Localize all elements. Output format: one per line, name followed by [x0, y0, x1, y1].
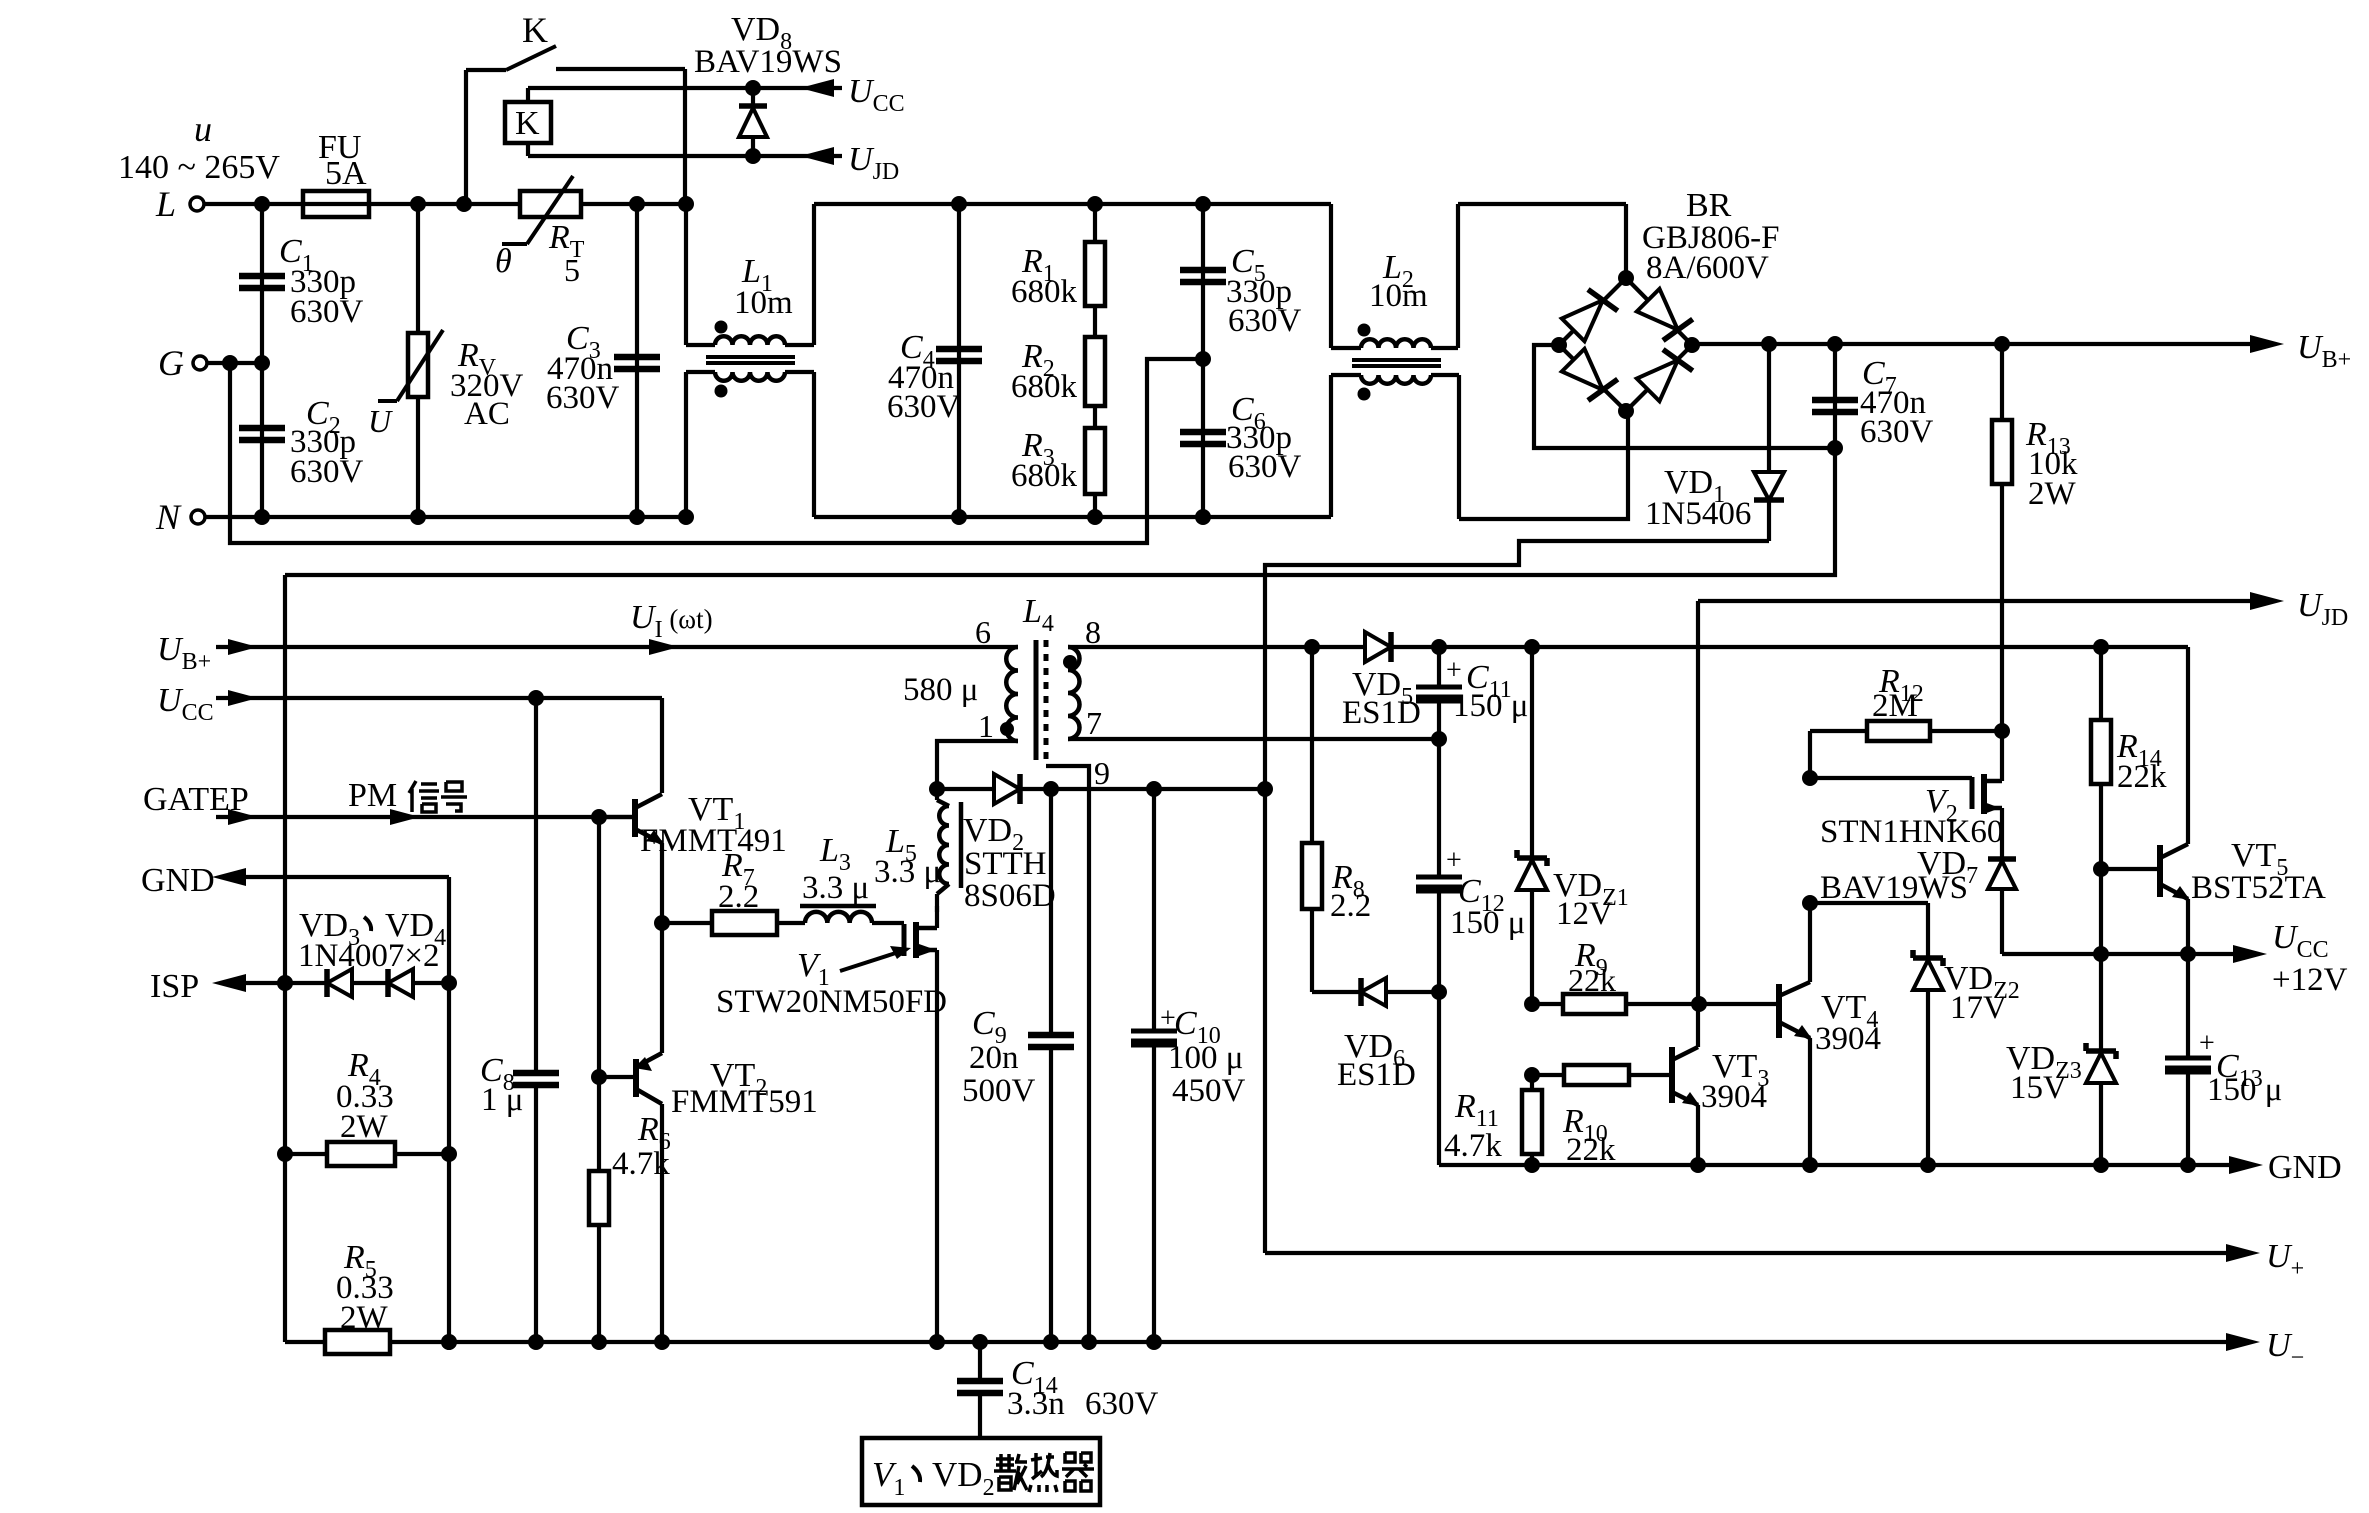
zener VDZ2 17V	[1810, 901, 1928, 905]
wire ISP line	[244, 981, 327, 985]
VT1 collector	[635, 794, 662, 808]
transistor VT1 FMMT491 base bar	[632, 799, 638, 837]
svg-text:630V: 630V	[1860, 414, 1934, 450]
switch K bypass relay contact	[464, 70, 468, 204]
svg-text:STW20NM50FD: STW20NM50FD	[716, 984, 947, 1020]
resistor R5 0.33 2W in U- rail	[285, 1340, 325, 1344]
svg-text:FMMT491: FMMT491	[640, 823, 787, 859]
transistor VT2 FMMT591 base bar	[633, 1059, 639, 1097]
diode VD5 ES1D	[1365, 632, 1391, 662]
svg-text:630V: 630V	[1228, 303, 1302, 339]
svg-text:+12V: +12V	[2272, 962, 2348, 998]
wire PM signal line to VT1 base	[256, 815, 635, 819]
svg-text:ES1D: ES1D	[1342, 695, 1421, 731]
svg-text:L: L	[155, 184, 176, 224]
wire L to fuse	[204, 202, 303, 206]
svg-text:1 μ: 1 μ	[481, 1082, 523, 1118]
VT1 emitter with arrow	[635, 829, 662, 843]
svg-text:12V: 12V	[1556, 896, 1613, 932]
svg-text:2W: 2W	[340, 1300, 389, 1336]
heat sink box V1 VD2	[862, 1438, 1100, 1505]
svg-text:3904: 3904	[1815, 1021, 1881, 1057]
svg-text:AC: AC	[464, 396, 510, 432]
wire coil to UCC arrow	[528, 86, 842, 90]
capacitor C5 330p 630V	[1201, 204, 1205, 359]
common-mode choke L1 10m	[684, 204, 688, 345]
bridge diode top-right	[1637, 289, 1678, 330]
VT5 emitter	[2160, 884, 2188, 899]
wire GND rail lower	[1439, 1163, 2241, 1167]
inductor L5 3.3u	[935, 789, 939, 800]
svg-text:6: 6	[975, 614, 991, 650]
resistor R1 680k	[1093, 204, 1097, 242]
svg-text:FMMT591: FMMT591	[671, 1084, 818, 1120]
svg-text:22k: 22k	[1568, 962, 1616, 998]
wire GND line	[244, 875, 449, 879]
L4 pin1 wire to VD2 anode	[937, 741, 1018, 789]
wire U_I line to L4 pin6	[256, 645, 1018, 649]
capacitor C9 20n 500V	[1049, 789, 1053, 1035]
node L input terminal	[190, 197, 204, 211]
VT4 emitter	[1779, 1022, 1810, 1038]
svg-text:U: U	[368, 403, 393, 439]
wire N bus left	[205, 515, 686, 519]
svg-text:θ: θ	[495, 243, 512, 280]
capacitor C6 330p 630V	[1201, 359, 1205, 517]
VT3 collector to UJD vertical	[1672, 1047, 1698, 1060]
svg-text:N: N	[155, 497, 182, 537]
svg-text:10m: 10m	[734, 285, 793, 321]
capacitor C10 100u 450V electrolytic	[1152, 789, 1156, 1031]
VT5 collector	[2160, 844, 2188, 858]
bridge diode bottom-right	[1637, 360, 1678, 401]
capacitor C13 150u electrolytic	[2186, 954, 2190, 1058]
svg-text:8A/600V: 8A/600V	[1646, 250, 1769, 286]
resistor R11 4.7k	[1530, 1075, 1534, 1090]
svg-text:450V: 450V	[1172, 1073, 1246, 1109]
svg-text:3.3 μ: 3.3 μ	[802, 870, 869, 906]
output arrow UCC +12V	[2233, 945, 2267, 963]
svg-text:+: +	[2199, 1028, 2215, 1059]
transistor VT5 BST52TA	[2101, 867, 2160, 871]
arrow U_I(wt) on line	[649, 639, 679, 655]
svg-text:500V: 500V	[962, 1073, 1036, 1109]
svg-text:BAV19WS: BAV19WS	[694, 44, 842, 80]
diode VD6 ES1D	[1312, 990, 1361, 994]
svg-text:680k: 680k	[1011, 274, 1078, 310]
wire coil to UJD arrow	[528, 154, 842, 158]
capacitor C1 330p 630V	[260, 204, 264, 363]
varistor RV 320V AC	[416, 204, 420, 333]
node G input terminal	[193, 356, 207, 370]
svg-text:15V: 15V	[2010, 1070, 2067, 1106]
capacitor C3 470n 630V	[635, 204, 639, 517]
VT4 collector	[1779, 982, 1810, 996]
capacitor C11 150u electrolytic	[1437, 647, 1441, 687]
svg-text:22k: 22k	[1566, 1132, 1616, 1168]
wire L4 pin8 line to right	[1068, 645, 2188, 649]
wire bridge negative rail	[1534, 345, 1835, 448]
resistor R7 2.2	[662, 921, 712, 925]
diode VD7 BAV19WS	[1988, 856, 2016, 862]
svg-text:630V: 630V	[1085, 1386, 1159, 1422]
svg-text:1N4007×2: 1N4007×2	[298, 938, 439, 974]
svg-text:2M: 2M	[1872, 688, 1918, 724]
output arrow UB+ top	[2250, 335, 2284, 353]
svg-text:630V: 630V	[546, 380, 620, 416]
svg-text:100 μ: 100 μ	[1168, 1040, 1243, 1076]
zener VDZ3 15V	[2099, 954, 2103, 1051]
mosfet V2 STN1HNK60	[1810, 776, 1972, 780]
wire top bus middle	[814, 202, 1331, 206]
svg-text:GND: GND	[141, 862, 215, 899]
svg-text:20n: 20n	[969, 1040, 1019, 1076]
wire C12 bottom to GND rail corner	[1437, 992, 1441, 1165]
svg-text:BAV19WS: BAV19WS	[1820, 870, 1968, 906]
wire top bus to bridge	[1458, 202, 1626, 206]
capacitor C4 470n 630V	[957, 204, 961, 517]
svg-text:580 μ: 580 μ	[903, 672, 978, 708]
svg-text:u: u	[194, 109, 212, 149]
svg-text:3904: 3904	[1701, 1079, 1767, 1115]
wire base drive vertical GATEP to VT2	[597, 817, 601, 1077]
output arrow UJD right	[2250, 592, 2284, 610]
relay coil K	[505, 102, 551, 143]
svg-text:10m: 10m	[1369, 278, 1428, 314]
capacitor C14 3.3n 630V	[978, 1342, 982, 1381]
svg-text:150 μ: 150 μ	[2207, 1072, 2282, 1108]
wire UB+ bus from bridge	[1692, 342, 2262, 346]
svg-text:ES1D: ES1D	[1337, 1057, 1416, 1093]
svg-text:STN1HNK60: STN1HNK60	[1820, 814, 2003, 850]
svg-text:1: 1	[978, 708, 994, 744]
wire fuse to RT	[418, 202, 520, 206]
L4 pin9 wire	[1046, 766, 1089, 1342]
svg-text:2.2: 2.2	[718, 879, 759, 915]
svg-text:1N5406: 1N5406	[1645, 496, 1751, 532]
svg-text:STTH: STTH	[964, 846, 1047, 882]
svg-text:630V: 630V	[290, 294, 364, 330]
wire U- bus	[390, 1340, 2238, 1344]
svg-text:ISP: ISP	[150, 968, 199, 1005]
svg-text:150 μ: 150 μ	[1450, 905, 1525, 941]
L4 core bars	[1034, 640, 1039, 760]
VT2 collector	[636, 1089, 662, 1104]
svg-text:8: 8	[1085, 614, 1101, 650]
svg-text:+: +	[1446, 845, 1462, 876]
svg-text:22k: 22k	[2117, 759, 2167, 795]
input arrow UJD top	[800, 147, 834, 165]
wire DC- down and left to lower section	[285, 448, 1835, 575]
transformer L4 580u primary winding pins 6-1	[1006, 647, 1018, 741]
resistor R8 2.2	[1310, 647, 1314, 843]
diode VD1 1N5406	[1767, 344, 1771, 472]
wire G to C1/C2	[207, 361, 262, 365]
node N input terminal	[191, 510, 205, 524]
resistor R10 22k	[1524, 1067, 1540, 1083]
svg-text:140 ~ 265V: 140 ~ 265V	[118, 149, 280, 186]
output arrow GND right	[2229, 1156, 2263, 1174]
svg-text:630V: 630V	[887, 389, 961, 425]
svg-text:7: 7	[1086, 705, 1102, 741]
output arrow U+ right	[2226, 1244, 2260, 1262]
svg-text:630V: 630V	[1228, 449, 1302, 485]
wire UJD line lower	[1698, 599, 2262, 603]
capacitor C8 1u	[534, 698, 538, 1073]
svg-text:PM: PM	[348, 777, 397, 814]
svg-text:5A: 5A	[325, 155, 367, 192]
resistor R2 680k	[1093, 306, 1097, 337]
L4 secondary winding pins 8-7	[1068, 647, 1080, 739]
wire pin8 corner down to VT5 collector	[2186, 647, 2190, 844]
common-mode choke L2 10m	[1329, 204, 1333, 348]
diode VD2 STTH8S06D	[937, 787, 994, 791]
wire earth line from G to C5C6 midpoint	[230, 359, 1197, 543]
svg-text:3.3n: 3.3n	[1007, 1386, 1065, 1422]
svg-text:680k: 680k	[1011, 458, 1078, 494]
wire switch right to L bus	[683, 69, 687, 204]
svg-text:150 μ: 150 μ	[1453, 688, 1528, 724]
bridge rectifier BR GBJ806-F 8A/600V	[1559, 278, 1692, 411]
fuse FU 5A	[303, 191, 369, 217]
output arrow U- right	[2226, 1333, 2260, 1351]
svg-text:BR: BR	[1686, 187, 1732, 224]
thermistor RT 5	[520, 191, 581, 217]
diode VD4 1N4007	[385, 969, 391, 997]
svg-text:680k: 680k	[1011, 369, 1078, 405]
wire L4 pin7 to C11 bottom	[1068, 737, 1439, 741]
svg-text:9: 9	[1094, 755, 1110, 791]
svg-text:630V: 630V	[290, 454, 364, 490]
wire UCC +12V output line	[2002, 952, 2245, 956]
svg-text:+: +	[1446, 655, 1462, 686]
bridge diode bottom-left	[1562, 349, 1603, 390]
svg-text:2.2: 2.2	[1330, 888, 1371, 924]
bridge diode top-left	[1562, 300, 1603, 341]
svg-text:4.7k: 4.7k	[612, 1146, 670, 1182]
resistor R4 0.33 2W	[285, 1152, 327, 1156]
wire VT1 emitter to VT2 emitter	[660, 923, 664, 1053]
svg-text:3.3 μ: 3.3 μ	[874, 854, 941, 890]
resistor R6 4.7k	[597, 1077, 601, 1171]
svg-text:G: G	[158, 343, 184, 383]
svg-text:8S06D: 8S06D	[964, 878, 1056, 914]
resistor R14 22k	[2099, 647, 2103, 720]
transistor VT3 3904	[1669, 1047, 1675, 1103]
capacitor C7 470n 630V	[1833, 344, 1837, 448]
wire AC2 from L2 to bridge bottom	[1459, 411, 1628, 519]
svg-text:GND: GND	[2268, 1149, 2342, 1186]
wire left box vertical	[283, 575, 287, 1342]
wire U+ output line	[1265, 1251, 2238, 1255]
VT2 emitter with arrow into bar (PNP)	[636, 1053, 662, 1067]
VT3 emitter	[1672, 1092, 1698, 1105]
mosfet V1 STW20NM50FD	[902, 924, 907, 956]
diode VD3 1N4007	[324, 969, 330, 997]
svg-text:K: K	[515, 105, 540, 142]
svg-text:5: 5	[564, 252, 580, 288]
L4 phase dots	[1063, 655, 1077, 669]
zener VDZ1 12V	[1530, 647, 1534, 858]
svg-text:2W: 2W	[2028, 476, 2077, 512]
svg-text:4.7k: 4.7k	[1444, 1128, 1502, 1164]
input arrow UCC top	[800, 79, 834, 97]
svg-text:BST52TA: BST52TA	[2191, 870, 2326, 906]
resistor R9 22k	[1524, 996, 1540, 1012]
svg-text:2W: 2W	[340, 1109, 389, 1145]
capacitor C2 330p 630V	[260, 363, 264, 517]
transistor VT4 3904	[1776, 984, 1782, 1038]
resistor R3 680k	[1093, 406, 1097, 428]
svg-text:K: K	[522, 10, 548, 50]
wire VD1 to U+ vertical	[1265, 541, 1769, 1253]
diode VD8 BAV19WS	[745, 80, 761, 96]
wire UCC line to VT1 collector	[256, 696, 662, 700]
resistor R12 2M	[1810, 729, 1867, 733]
resistor R13 10k 2W	[2000, 344, 2004, 420]
wire N bus middle	[814, 515, 1331, 519]
capacitor C12 150u electrolytic	[1437, 739, 1441, 877]
inductor L3 3.3u	[777, 921, 805, 925]
svg-text:17V: 17V	[1950, 990, 2007, 1026]
